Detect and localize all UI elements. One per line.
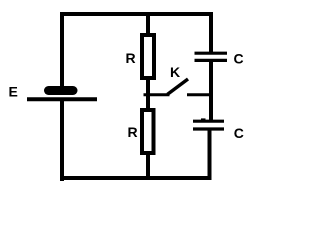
svg-text:C: C: [234, 125, 244, 141]
svg-text:K: K: [170, 64, 180, 80]
capacitor C1: [195, 53, 228, 60]
wire top: [60, 12, 213, 16]
svg-text:E: E: [9, 84, 18, 100]
switch K (open lever): [167, 79, 188, 94]
resistor R2: [142, 110, 154, 153]
resistor R1: [142, 35, 154, 78]
wire left upper (battery branch): [60, 12, 64, 87]
battery E: [27, 91, 97, 100]
wire middle upper (top wire to R1): [146, 14, 150, 35]
capacitor C2: [193, 118, 224, 129]
wire right lower (C2 to bottom wire): [208, 131, 212, 181]
svg-text:R: R: [126, 50, 136, 66]
wire left lower (battery branch): [60, 100, 64, 181]
svg-text:C: C: [234, 50, 244, 66]
wire middle between R1 and R2: [146, 78, 150, 110]
wire right upper (top wire to C1): [209, 12, 213, 53]
svg-text:R: R: [128, 124, 138, 140]
wire bottom: [60, 176, 212, 180]
wire middle lower (R2 to bottom wire): [146, 153, 150, 178]
node J1 (switch pivot junction tick): [144, 93, 170, 96]
wire switch contact to right branch: [187, 93, 211, 96]
wire right middle (C1 to C2): [209, 62, 213, 121]
